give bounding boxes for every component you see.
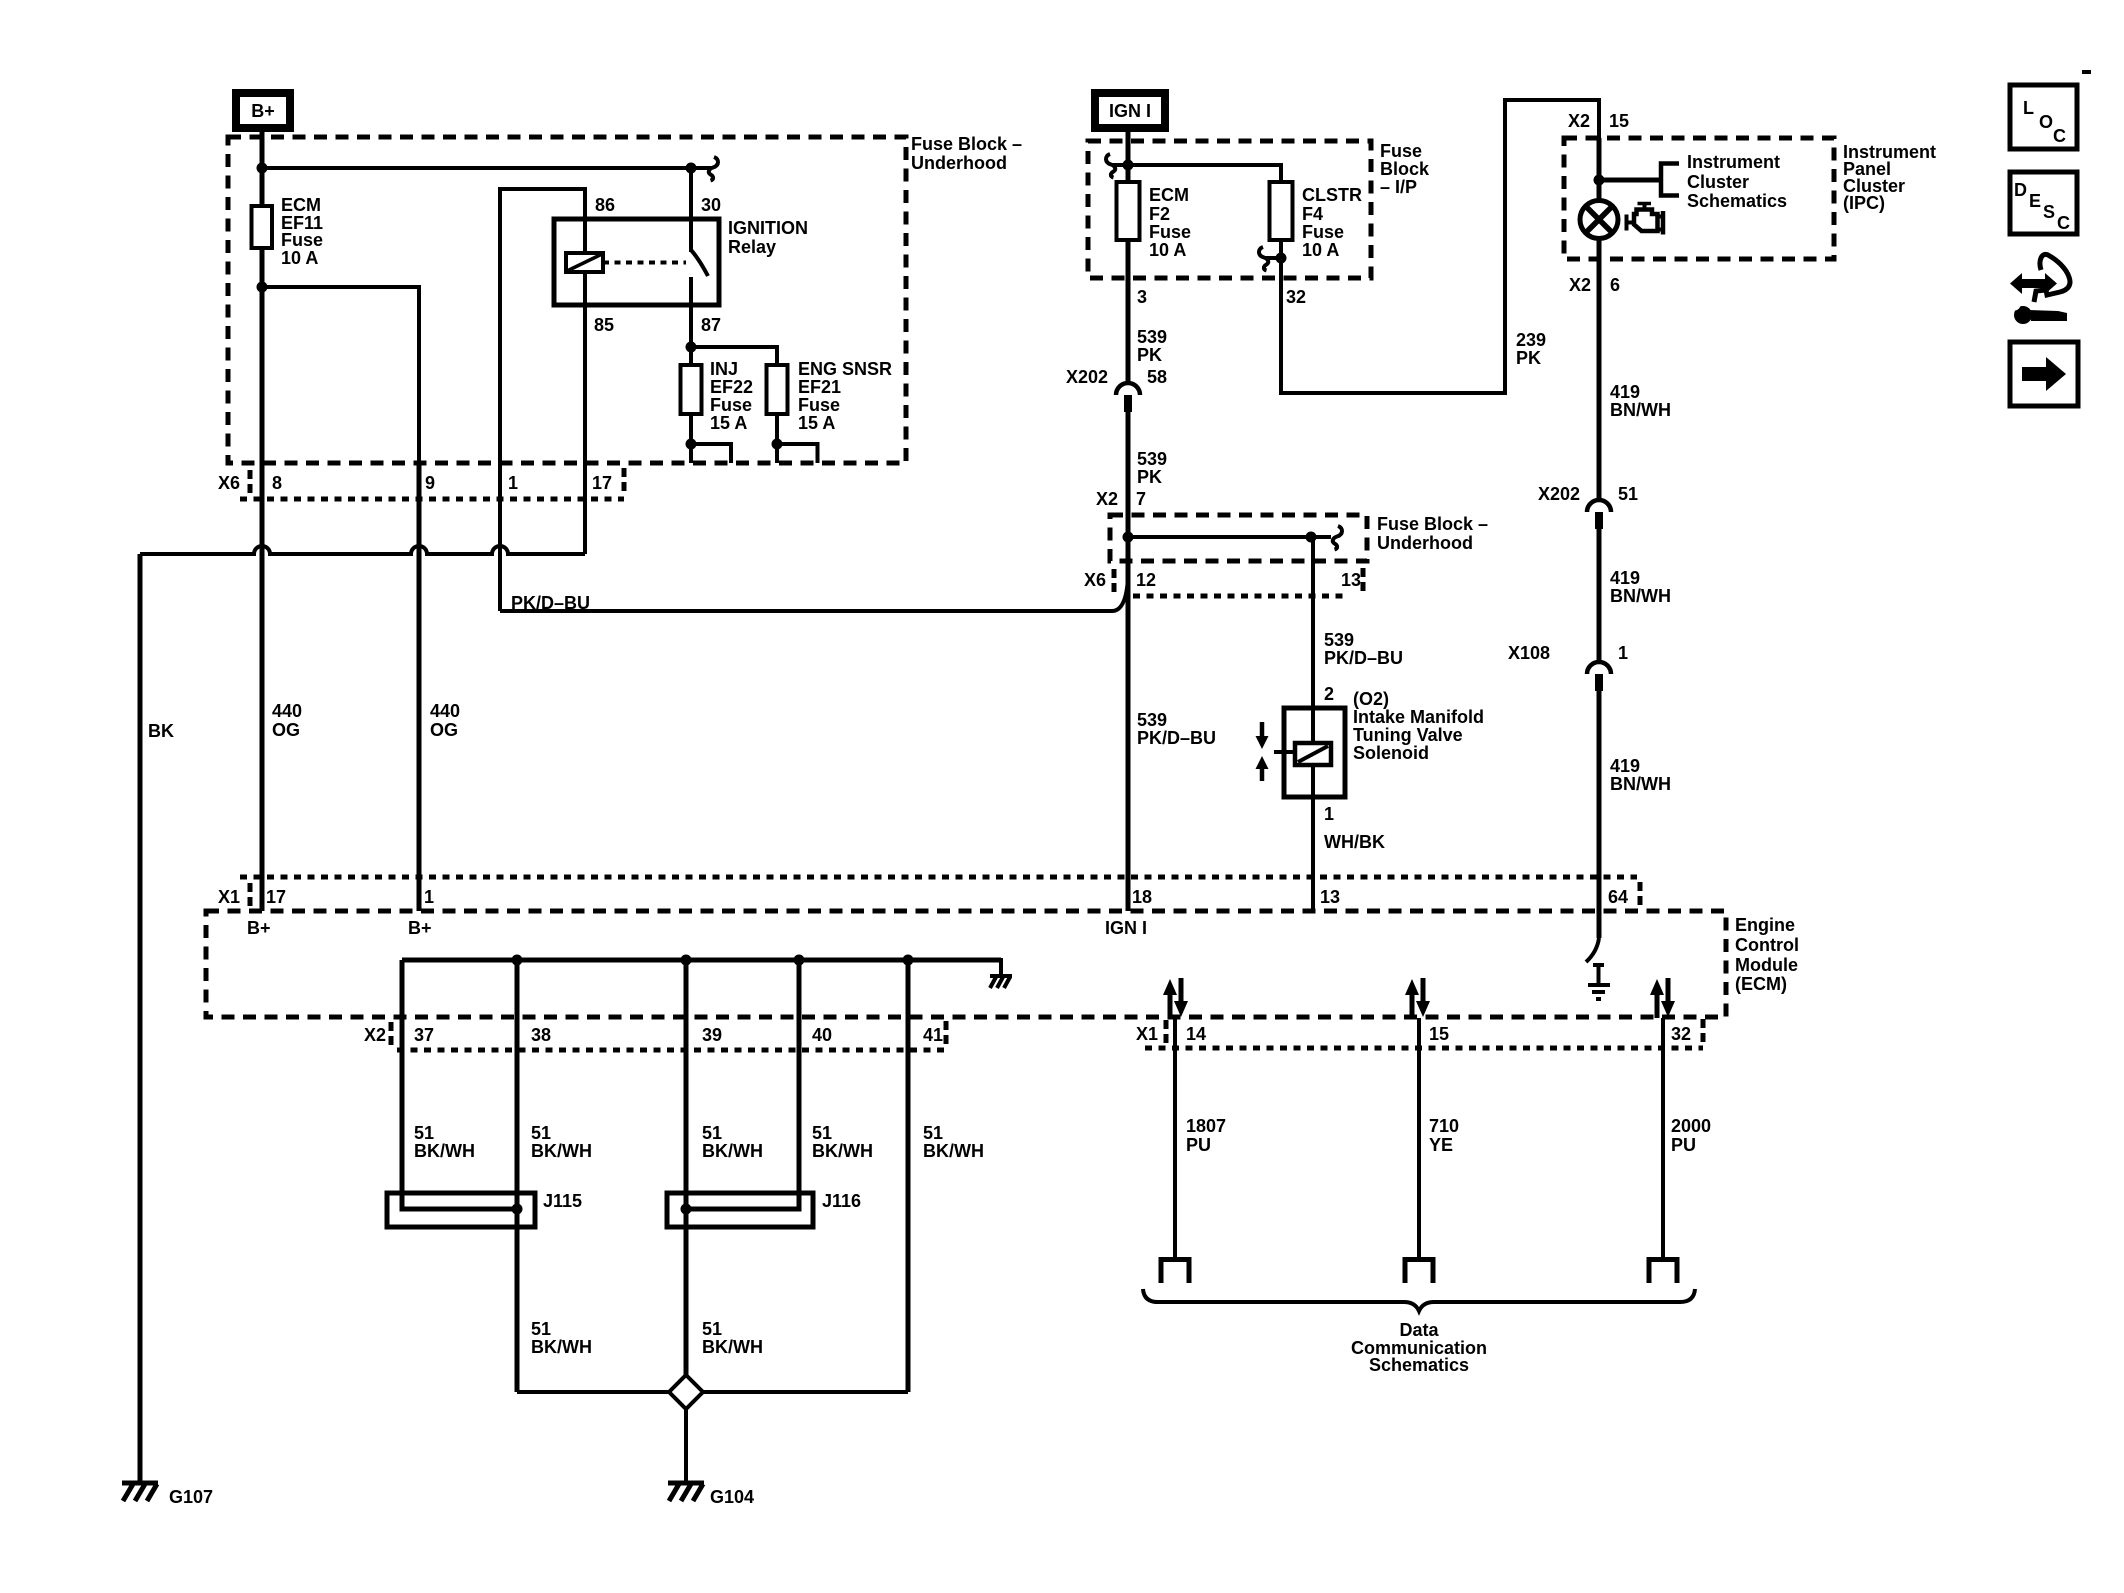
- svg-text:EF22: EF22: [710, 377, 753, 397]
- svg-text:17: 17: [266, 887, 286, 907]
- ground G107: [122, 1483, 158, 1501]
- node EF22 out: [686, 439, 697, 450]
- label 539 PK/D-BU right: [1324, 630, 1403, 668]
- solenoid IMT valve box: [1284, 708, 1345, 797]
- svg-text:IGN I: IGN I: [1105, 918, 1147, 938]
- svg-text:Fuse Block –: Fuse Block –: [1377, 514, 1488, 534]
- svg-text:87: 87: [701, 315, 721, 335]
- svg-text:40: 40: [812, 1025, 832, 1045]
- label instrument cluster schematics: [1687, 152, 1787, 211]
- svg-text:X202: X202: [1538, 484, 1580, 504]
- svg-text:PU: PU: [1671, 1135, 1696, 1155]
- svg-text:85: 85: [594, 315, 614, 335]
- wire to diamond right: [703, 1390, 908, 1394]
- svg-text:B+: B+: [251, 101, 275, 121]
- svg-text:– I/P: – I/P: [1380, 177, 1417, 197]
- wire bus to relay 30: [262, 166, 712, 170]
- svg-text:6: 6: [1610, 275, 1620, 295]
- svg-text:32: 32: [1286, 287, 1306, 307]
- svg-text:7: 7: [1136, 489, 1146, 509]
- svg-text:13: 13: [1320, 887, 1340, 907]
- svg-text:2000: 2000: [1671, 1116, 1711, 1136]
- label data communication schematics: [1351, 1320, 1487, 1375]
- wire IGN I feed: [1126, 130, 1131, 170]
- terminator 14: [1161, 1260, 1189, 1284]
- svg-text:Tuning Valve: Tuning Valve: [1353, 725, 1463, 745]
- svg-text:Fuse Block –: Fuse Block –: [911, 134, 1022, 154]
- ground G104: [668, 1483, 704, 1501]
- svg-text:Underhood: Underhood: [911, 153, 1007, 173]
- svg-text:1: 1: [424, 887, 434, 907]
- inline connector X202-51: [1587, 500, 1611, 529]
- svg-text:Engine: Engine: [1735, 915, 1795, 935]
- svg-text:38: 38: [531, 1025, 551, 1045]
- svg-text:Block: Block: [1380, 159, 1430, 179]
- svg-text:B+: B+: [408, 918, 432, 938]
- label 51 BK/WH 37: [414, 1123, 475, 1161]
- svg-text:51: 51: [531, 1123, 551, 1143]
- svg-text:419: 419: [1610, 568, 1640, 588]
- wire lamp out: [1597, 238, 1602, 310]
- node F4 out: [1276, 253, 1287, 264]
- label fuse CLSTR F4: [1302, 185, 1362, 260]
- svg-text:51: 51: [414, 1123, 434, 1143]
- connector pigtail underhood2: [1333, 526, 1342, 550]
- wire 710 YE: [1417, 1018, 1421, 1257]
- wire 539 PK/D-BU ign: [1126, 537, 1131, 911]
- arrows data 14: [1163, 978, 1188, 1018]
- svg-text:10 A: 10 A: [1302, 240, 1339, 260]
- wire pigtail stub F4: [1265, 256, 1281, 260]
- label X2 pin6: [1569, 275, 1620, 295]
- ground bus ECM: [402, 958, 1001, 963]
- label 419 BN/WH upper: [1610, 382, 1671, 420]
- ground internal ECM bus: [990, 958, 1012, 988]
- svg-text:ENG SNSR: ENG SNSR: [798, 359, 892, 379]
- svg-text:PK/D–BU: PK/D–BU: [1137, 728, 1216, 748]
- fuse block underhood label: [911, 134, 1022, 173]
- label 419 BN/WH middle: [1610, 568, 1671, 606]
- svg-text:1: 1: [1324, 804, 1334, 824]
- svg-text:BN/WH: BN/WH: [1610, 400, 1671, 420]
- wire relay 86 feed: [500, 189, 585, 463]
- svg-text:8: 8: [272, 473, 282, 493]
- mark top right: [2082, 70, 2091, 74]
- label 440 OG second: [430, 701, 460, 740]
- svg-text:PU: PU: [1186, 1135, 1211, 1155]
- svg-text:51: 51: [531, 1319, 551, 1339]
- svg-text:X2: X2: [364, 1025, 386, 1045]
- svg-text:Module: Module: [1735, 955, 1798, 975]
- svg-text:539: 539: [1137, 327, 1167, 347]
- svg-text:C: C: [2053, 126, 2066, 146]
- connector pigtail F4 out: [1259, 247, 1268, 271]
- svg-text:12: 12: [1136, 570, 1156, 590]
- connector pigtail at bus end: [709, 157, 718, 181]
- wire to cluster ref: [1599, 178, 1661, 183]
- label 51 BK/WH 41: [923, 1123, 984, 1161]
- svg-text:Fuse: Fuse: [798, 395, 840, 415]
- svg-text:1: 1: [508, 473, 518, 493]
- svg-text:440: 440: [272, 701, 302, 721]
- svg-text:BN/WH: BN/WH: [1610, 774, 1671, 794]
- inline connector X108-1: [1587, 662, 1611, 691]
- terminator 32: [1649, 1260, 1677, 1284]
- ground internal 64: [1588, 965, 1610, 999]
- svg-text:51: 51: [1618, 484, 1638, 504]
- svg-text:WH/BK: WH/BK: [1324, 832, 1385, 852]
- svg-text:15 A: 15 A: [798, 413, 835, 433]
- svg-text:2: 2: [1324, 684, 1334, 704]
- ECM box: [206, 911, 1726, 1017]
- wire into IPC: [1597, 138, 1602, 201]
- fuse ECM F2 10A: [1117, 165, 1140, 383]
- valve arrows: [1256, 722, 1269, 781]
- node X6-12: [1123, 532, 1134, 543]
- svg-text:X2: X2: [1569, 275, 1591, 295]
- label 239 PK: [1516, 330, 1546, 368]
- svg-text:X108: X108: [1508, 643, 1550, 663]
- svg-text:ECM: ECM: [281, 195, 321, 215]
- label 2000 PU: [1671, 1116, 1711, 1155]
- svg-text:F2: F2: [1149, 204, 1170, 224]
- node IGN bus: [1123, 160, 1134, 171]
- svg-text:PK/D–BU: PK/D–BU: [1324, 648, 1403, 668]
- svg-text:J116: J116: [822, 1191, 861, 1211]
- svg-text:PK/D–BU: PK/D–BU: [511, 593, 590, 613]
- connector row X6 left: [240, 468, 624, 499]
- wire relay 87: [689, 305, 693, 347]
- svg-text:Instrument: Instrument: [1687, 152, 1780, 172]
- wire pin1 down: [498, 463, 502, 611]
- fuse block I/P box: [1088, 141, 1371, 278]
- svg-text:(O2): (O2): [1353, 689, 1389, 709]
- svg-text:(IPC): (IPC): [1843, 193, 1885, 213]
- label 51 BK/WH J115: [531, 1319, 592, 1357]
- svg-text:86: 86: [595, 195, 615, 215]
- label 51 BK/WH 38: [531, 1123, 592, 1161]
- label fuse ECM F2: [1149, 185, 1191, 260]
- arrows data 32: [1650, 978, 1675, 1018]
- wire BK with hops: [140, 546, 585, 1483]
- svg-text:BK: BK: [148, 721, 174, 741]
- label fuse INJ EF22: [710, 359, 753, 433]
- lamp indicator: [1580, 201, 1618, 239]
- label 539 PK/D-BU left: [1137, 710, 1216, 748]
- node X6-13: [1306, 532, 1317, 543]
- brace data communication: [1143, 1289, 1695, 1311]
- wire branch to pin 9: [262, 287, 419, 463]
- wire diamond to G104: [684, 1409, 688, 1483]
- svg-text:G107: G107: [169, 1487, 213, 1507]
- svg-text:Schematics: Schematics: [1369, 1355, 1469, 1375]
- fuse ECM EF11 10A: [252, 168, 273, 290]
- svg-text:Data: Data: [1399, 1320, 1439, 1340]
- svg-text:E: E: [2029, 191, 2041, 211]
- svg-text:10 A: 10 A: [1149, 240, 1186, 260]
- wire EF22 stub: [691, 444, 731, 463]
- relay label: [728, 218, 808, 257]
- wire 539 PK/D-BU solenoid: [1311, 537, 1315, 718]
- svg-text:17: 17: [592, 473, 612, 493]
- node IPC split: [1594, 175, 1605, 186]
- svg-text:Cluster: Cluster: [1687, 172, 1749, 192]
- svg-text:L: L: [2023, 98, 2034, 118]
- svg-text:CLSTR: CLSTR: [1302, 185, 1362, 205]
- wire relay 85 to X6-17: [583, 305, 587, 554]
- svg-text:YE: YE: [1429, 1135, 1453, 1155]
- label 440 OG first: [272, 701, 302, 740]
- svg-text:Underhood: Underhood: [1377, 533, 1473, 553]
- svg-text:51: 51: [812, 1123, 832, 1143]
- splice J115: [387, 1193, 535, 1227]
- svg-text:(ECM): (ECM): [1735, 974, 1787, 994]
- node 440 branch: [257, 282, 268, 293]
- label 539 PK lower: [1137, 449, 1167, 487]
- svg-text:9: 9: [425, 473, 435, 493]
- svg-text:710: 710: [1429, 1116, 1459, 1136]
- svg-text:3: 3: [1137, 287, 1147, 307]
- svg-text:BK/WH: BK/WH: [923, 1141, 984, 1161]
- wire 39: [684, 960, 689, 1375]
- connector row X6 mid: [1114, 568, 1363, 596]
- svg-text:C: C: [2057, 213, 2070, 233]
- svg-text:Solenoid: Solenoid: [1353, 743, 1429, 763]
- svg-text:J115: J115: [543, 1191, 582, 1211]
- svg-text:X2: X2: [1568, 111, 1590, 131]
- power symbol B+: [232, 89, 294, 132]
- svg-text:EF21: EF21: [798, 377, 841, 397]
- fuse INJ EF22 15A: [681, 347, 702, 444]
- svg-text:539: 539: [1137, 449, 1167, 469]
- wire 440 OG pin9 down: [417, 463, 422, 911]
- connector pigtail IP left: [1106, 154, 1115, 178]
- node 87 split: [686, 342, 697, 353]
- svg-text:51: 51: [923, 1123, 943, 1143]
- svg-text:14: 14: [1186, 1024, 1206, 1044]
- solenoid coil: [1274, 708, 1331, 797]
- wire pigtail stub: [1112, 163, 1128, 167]
- svg-text:64: 64: [1608, 887, 1628, 907]
- svg-text:INJ: INJ: [710, 359, 738, 379]
- svg-text:Schematics: Schematics: [1687, 191, 1787, 211]
- svg-text:39: 39: [702, 1025, 722, 1045]
- wire to diamond left: [517, 1390, 669, 1394]
- svg-text:Control: Control: [1735, 935, 1799, 955]
- icon arrow box: [2010, 342, 2078, 406]
- wire 41: [906, 960, 911, 1392]
- label 539 PK upper: [1137, 327, 1167, 365]
- wire 1807 PU: [1173, 1018, 1177, 1257]
- wire 539 PK lower: [1126, 412, 1131, 537]
- splice J116: [667, 1193, 813, 1227]
- fuse block underhood 2 label: [1377, 514, 1488, 553]
- svg-text:ECM: ECM: [1149, 185, 1189, 205]
- svg-text:BK/WH: BK/WH: [812, 1141, 873, 1161]
- svg-text:Fuse: Fuse: [1302, 222, 1344, 242]
- svg-text:10 A: 10 A: [281, 248, 318, 268]
- svg-text:X6: X6: [1084, 570, 1106, 590]
- wire pigtail stub 13: [1311, 535, 1331, 539]
- svg-text:15: 15: [1429, 1024, 1449, 1044]
- svg-text:BK/WH: BK/WH: [702, 1141, 763, 1161]
- fuse block I/P label: [1380, 141, 1430, 197]
- label 51 BK/WH 40: [812, 1123, 873, 1161]
- node bus 40: [794, 955, 805, 966]
- svg-text:IGNITION: IGNITION: [728, 218, 808, 238]
- svg-text:BK/WH: BK/WH: [531, 1141, 592, 1161]
- svg-text:239: 239: [1516, 330, 1546, 350]
- ECM label: [1735, 915, 1799, 994]
- svg-text:Fuse: Fuse: [1380, 141, 1422, 161]
- wire 38: [515, 960, 520, 1392]
- svg-text:419: 419: [1610, 756, 1640, 776]
- node relay 30 tap: [686, 163, 697, 174]
- svg-text:Fuse: Fuse: [281, 230, 323, 250]
- svg-text:Intake Manifold: Intake Manifold: [1353, 707, 1484, 727]
- fuse block underhood box: [228, 137, 906, 463]
- wire 419 BN/WH middle: [1597, 529, 1602, 662]
- relay IGNITION box: [554, 219, 719, 305]
- wire 2000 PU: [1661, 1018, 1665, 1257]
- svg-text:Fuse: Fuse: [1149, 222, 1191, 242]
- svg-text:539: 539: [1137, 710, 1167, 730]
- svg-text:X6: X6: [218, 473, 240, 493]
- svg-text:BK/WH: BK/WH: [414, 1141, 475, 1161]
- bracket cluster ref: [1661, 164, 1679, 196]
- label fuse ECM EF11: [281, 195, 323, 268]
- connector row X2 bottom: [391, 1021, 946, 1050]
- svg-text:41: 41: [923, 1025, 943, 1045]
- svg-text:37: 37: [414, 1025, 434, 1045]
- svg-text:X2: X2: [1096, 489, 1118, 509]
- label solenoid: [1353, 689, 1484, 763]
- wire 419 BN/WH upper: [1597, 310, 1602, 500]
- splice diamond: [669, 1375, 703, 1409]
- svg-text:Fuse: Fuse: [710, 395, 752, 415]
- svg-text:539: 539: [1324, 630, 1354, 650]
- svg-text:X1: X1: [1136, 1024, 1158, 1044]
- svg-text:X1: X1: [218, 887, 240, 907]
- svg-text:BK/WH: BK/WH: [531, 1337, 592, 1357]
- svg-text:IGN I: IGN I: [1109, 101, 1151, 121]
- node bus junction: [257, 163, 268, 174]
- svg-text:440: 440: [430, 701, 460, 721]
- svg-text:18: 18: [1132, 887, 1152, 907]
- label 51 BK/WH J116: [702, 1319, 763, 1357]
- svg-text:B+: B+: [247, 918, 271, 938]
- svg-text:F4: F4: [1302, 204, 1323, 224]
- svg-text:PK: PK: [1516, 348, 1541, 368]
- label 419 BN/WH lower: [1610, 756, 1671, 794]
- relay coil-switch dashed link: [603, 261, 686, 265]
- wire 40: [797, 960, 802, 1193]
- svg-text:S: S: [2043, 202, 2055, 222]
- inline connector X202-58: [1116, 383, 1140, 412]
- svg-text:OG: OG: [272, 720, 300, 740]
- fuse CLSTR F4 10A: [1270, 182, 1293, 258]
- fuse ENG SNSR EF21 15A: [767, 365, 788, 444]
- svg-text:51: 51: [702, 1319, 722, 1339]
- svg-text:51: 51: [702, 1123, 722, 1143]
- wire bus to X6-13: [1128, 535, 1311, 539]
- svg-text:O: O: [2039, 112, 2053, 132]
- connector row X1 top: [240, 877, 1640, 907]
- icon diagnostic wrench: [2009, 254, 2070, 324]
- wire PK/D-BU horizontal: [500, 578, 1128, 611]
- fuse block underhood 2 box: [1110, 515, 1367, 561]
- label 51 BK/WH 39: [702, 1123, 763, 1161]
- switch blade 64: [1586, 938, 1599, 962]
- svg-text:30: 30: [701, 195, 721, 215]
- wire 440 OG pin8 down: [260, 463, 265, 911]
- node bus 38: [512, 955, 523, 966]
- wire EF21 stub: [777, 444, 818, 463]
- node bus 41: [903, 955, 914, 966]
- node bus 39: [681, 955, 692, 966]
- svg-text:G104: G104: [710, 1487, 754, 1507]
- svg-text:BN/WH: BN/WH: [1610, 586, 1671, 606]
- wire pin8 drop: [260, 287, 265, 463]
- svg-text:PK: PK: [1137, 467, 1162, 487]
- label 710 YE: [1429, 1116, 1459, 1155]
- svg-text:58: 58: [1147, 367, 1167, 387]
- label X2 pin7: [1096, 489, 1146, 509]
- svg-text:32: 32: [1671, 1024, 1691, 1044]
- svg-text:OG: OG: [430, 720, 458, 740]
- wire 64 internal: [1597, 877, 1602, 938]
- label 1807 PU: [1186, 1116, 1226, 1155]
- wire branch to EF21: [691, 347, 777, 365]
- wire 419 BN/WH lower: [1597, 691, 1602, 938]
- svg-text:Relay: Relay: [728, 237, 776, 257]
- wire WH/BK: [1311, 797, 1315, 911]
- relay coil: [566, 219, 603, 305]
- engine icon MIL: [1627, 204, 1664, 235]
- power symbol IGN I: [1091, 89, 1169, 132]
- svg-text:D: D: [2014, 180, 2027, 200]
- arrows data 15: [1405, 978, 1430, 1018]
- label X2 pin15: [1568, 111, 1629, 131]
- icon LOC box: [2010, 85, 2077, 149]
- wire 37: [400, 960, 405, 1193]
- wire B+ feed: [260, 130, 265, 170]
- icon DESC box: [2010, 172, 2077, 234]
- svg-text:15: 15: [1609, 111, 1629, 131]
- terminator 15: [1405, 1260, 1433, 1284]
- svg-text:1: 1: [1618, 643, 1628, 663]
- IPC box: [1564, 138, 1834, 259]
- connector row X1 bottom: [1145, 1019, 1703, 1048]
- svg-text:X202: X202: [1066, 367, 1108, 387]
- node EF21 out: [772, 439, 783, 450]
- relay switch: [691, 168, 708, 305]
- svg-text:BK/WH: BK/WH: [702, 1337, 763, 1357]
- svg-text:PK: PK: [1137, 345, 1162, 365]
- svg-text:15 A: 15 A: [710, 413, 747, 433]
- svg-text:419: 419: [1610, 382, 1640, 402]
- wire 239 PK route: [1281, 100, 1599, 393]
- svg-text:1807: 1807: [1186, 1116, 1226, 1136]
- IPC label: [1843, 142, 1936, 213]
- wire bus to F4: [1128, 165, 1281, 182]
- label fuse ENG SNSR EF21: [798, 359, 892, 433]
- svg-text:13: 13: [1341, 570, 1361, 590]
